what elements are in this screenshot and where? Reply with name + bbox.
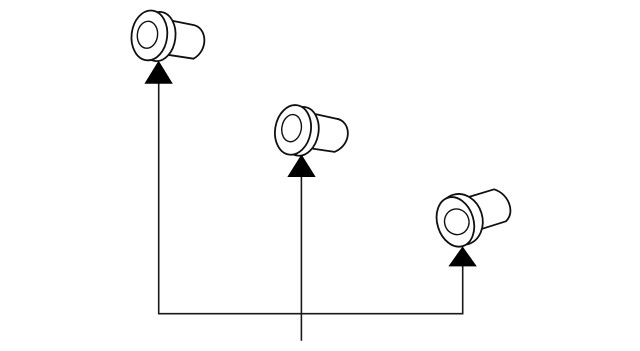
leader polyline bushing1 -> horizontal -> bushing3 <box>159 82 463 314</box>
bushing 3 back flange ellipse <box>432 188 489 250</box>
bushing 2 back flange ellipse <box>280 104 323 158</box>
bushing 1 hole <box>136 20 159 49</box>
bushing 3 front flange ellipse <box>431 192 480 251</box>
bushing 3 hole <box>441 206 472 238</box>
bushing 1 body <box>161 19 204 58</box>
bushing 2 front flange ellipse <box>271 102 315 157</box>
bushing 1 front flange ellipse <box>129 8 170 62</box>
bushing 1 back flange ellipse <box>138 10 178 63</box>
bushing 3 body <box>463 189 510 230</box>
bushing 2 hole <box>280 113 304 143</box>
leader line bushing 2 vertical <box>300 176 302 341</box>
bushing 2 body <box>305 112 348 152</box>
arrow 3 <box>448 246 476 266</box>
arrow 1 <box>144 61 172 84</box>
arrow 2 <box>287 154 315 177</box>
